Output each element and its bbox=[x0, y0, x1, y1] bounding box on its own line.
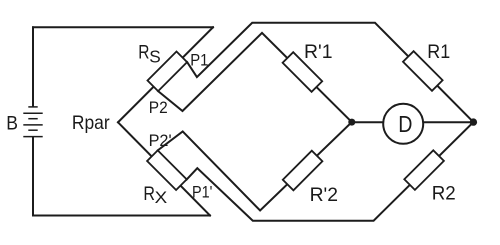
svg-text:R1: R1 bbox=[427, 41, 450, 63]
resistor R1 bbox=[403, 51, 443, 91]
svg-text:P1': P1' bbox=[192, 183, 212, 201]
resistor RS bbox=[148, 52, 188, 92]
svg-text:S: S bbox=[149, 46, 161, 66]
svg-text:R2: R2 bbox=[432, 182, 456, 204]
svg-text:R: R bbox=[143, 183, 155, 205]
svg-text:R'2: R'2 bbox=[310, 184, 338, 206]
wire P1 tap to top-right rail through R1 to node b bbox=[187, 23, 473, 122]
wire P1' tap along bottom through R2 to node b bbox=[187, 122, 474, 221]
wire detector link node a to node b bbox=[352, 121, 474, 123]
resistor R2 bbox=[404, 150, 444, 190]
svg-text:R'1: R'1 bbox=[304, 41, 333, 63]
svg-text:P2': P2' bbox=[149, 132, 172, 150]
svg-text:B: B bbox=[6, 113, 18, 135]
svg-text:D: D bbox=[398, 111, 412, 137]
battery B bbox=[23, 107, 42, 137]
galvanometer D bbox=[383, 104, 423, 144]
svg-text:Rpar: Rpar bbox=[72, 112, 110, 134]
wire lower main diagonal (through RX) bbox=[118, 122, 210, 215]
resistor R'1 bbox=[283, 52, 323, 92]
resistor R'2 bbox=[283, 151, 323, 191]
svg-text:P1: P1 bbox=[190, 52, 208, 70]
resistor RX bbox=[147, 150, 187, 190]
node b (junction dot) bbox=[470, 118, 477, 125]
wire P2 tap through R'1 to node a bbox=[158, 33, 352, 122]
wire battery top lead + left vertical bbox=[32, 27, 34, 106]
svg-text:P2: P2 bbox=[149, 99, 168, 117]
wire top-left rail bbox=[33, 26, 213, 28]
wire upper main diagonal (through RS) bbox=[118, 27, 213, 122]
wire bottom-left rail + battery bottom lead bbox=[33, 137, 210, 216]
node a (junction dot) bbox=[348, 119, 355, 126]
wire P2' tap through R'2 to node a bbox=[158, 122, 352, 210]
svg-text:X: X bbox=[155, 189, 168, 207]
svg-text:R: R bbox=[138, 42, 149, 64]
